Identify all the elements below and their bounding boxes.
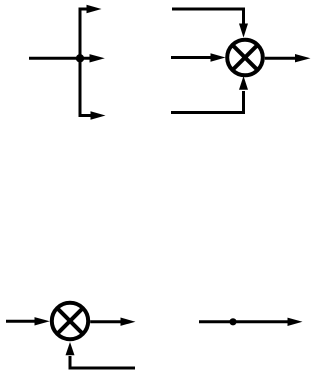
arrowhead: summer1 bottom input arrow (up) <box>239 76 248 90</box>
wire: summer1 bottom input line <box>171 91 244 113</box>
arrowhead: plain signal arrow <box>288 318 303 326</box>
node: signal line dot <box>229 318 236 325</box>
wire: pickoff main input line <box>29 57 90 60</box>
summing junction: circle with X (bottom left) <box>52 303 88 339</box>
arrowhead: pickoff middle output arrow <box>90 54 105 62</box>
wire: summer1 output line <box>265 57 296 60</box>
arrowhead: summer2 output arrow <box>121 318 136 326</box>
arrowhead: summer1 middle input arrow <box>211 53 226 61</box>
wire: summer2 bottom feedback line <box>70 356 135 368</box>
arrowhead: summer1 output arrow <box>295 54 311 62</box>
summing junction: circle with X (top right) <box>227 40 263 76</box>
node: pickoff junction dot <box>76 54 84 62</box>
arrowhead: pickoff top branch arrow <box>87 5 102 13</box>
arrowhead: summer2 bottom input arrow (up) <box>66 342 75 355</box>
arrowhead: summer2 left input arrow <box>35 317 50 325</box>
arrowhead: summer1 top input arrow (down) <box>239 24 248 38</box>
wire: summer1 middle input line <box>171 56 211 59</box>
wire: summer2 left input line <box>6 320 35 323</box>
wire: pickoff vertical branch line <box>80 9 91 116</box>
wire: summer2 output line <box>90 320 121 323</box>
wire: plain signal line (bottom right) <box>199 320 288 323</box>
arrowhead: pickoff bottom branch arrow <box>91 111 106 119</box>
wire: summer1 top input line <box>172 9 244 24</box>
